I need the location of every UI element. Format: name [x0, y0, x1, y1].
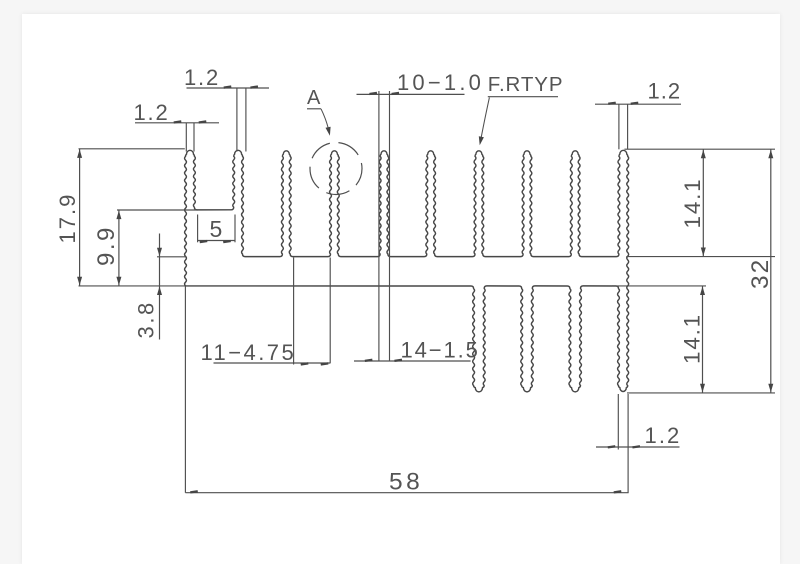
dim 14.1 lower [680, 286, 706, 393]
ext line base top right [626, 256, 775, 258]
svg-text:9.9: 9.9 [93, 225, 120, 266]
svg-text:1.2: 1.2 [134, 100, 170, 125]
svg-text:10−1.0: 10−1.0 [397, 70, 484, 95]
heatsink profile outline [185, 150, 629, 392]
ext line base bottom right [612, 285, 706, 287]
ext line bottom tip right [627, 392, 775, 394]
svg-text:A: A [307, 87, 322, 109]
svg-text:5: 5 [210, 216, 224, 242]
svg-text:F.RTYP: F.RTYP [488, 73, 564, 96]
dim 17.9 [55, 149, 185, 286]
svg-text:11−4.75: 11−4.75 [201, 340, 297, 365]
svg-text:14.1: 14.1 [680, 313, 705, 364]
detail circle A [310, 143, 362, 195]
dim 1.2 bottom fin [596, 394, 681, 493]
dim 9.9 [93, 210, 198, 286]
detail label A [307, 87, 331, 136]
dim 14-1.5 [354, 338, 480, 363]
svg-text:14−1.5: 14−1.5 [401, 338, 480, 363]
ext line fin top right [624, 148, 775, 150]
dim 1.2 fin1 [134, 100, 220, 152]
svg-text:1.2: 1.2 [648, 79, 682, 104]
dim 58 [185, 286, 628, 496]
dim 1.2 fin10 [595, 79, 681, 150]
dim 32 [747, 149, 774, 393]
dim 1.2 fin2 [184, 65, 269, 152]
svg-text:17.9: 17.9 [55, 193, 80, 244]
svg-text:32: 32 [747, 258, 774, 289]
svg-text:3.8: 3.8 [134, 300, 159, 338]
dim 14.1 upper [680, 149, 706, 256]
svg-text:14.1: 14.1 [680, 178, 705, 229]
dim 5 [198, 215, 235, 244]
dim 11-4.75 [201, 258, 331, 366]
dim 3.8 [134, 234, 187, 340]
svg-text:1.2: 1.2 [184, 65, 220, 90]
dim 10-1.0 F.RTYP [357, 70, 564, 361]
svg-text:58: 58 [389, 469, 423, 496]
svg-text:1.2: 1.2 [645, 423, 682, 448]
